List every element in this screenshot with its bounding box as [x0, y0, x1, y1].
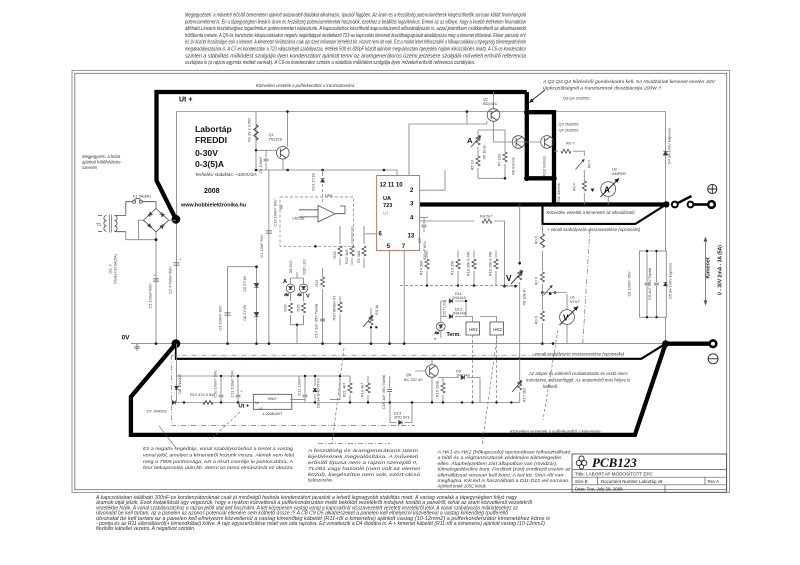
thick wire: Q3 collector drop — [525, 92, 529, 178]
wire Q1 emitter — [282, 159, 284, 170]
potentiometer R3 1k — [369, 315, 373, 325]
svg-text:erősítő típusa nem a rajzon sz: erősítő típusa nem a rajzon szereplő !!, — [308, 460, 418, 465]
svg-text:R20 W08H X1: R20 W08H X1 — [332, 296, 337, 321]
resistor R16 10k 0.4W — [495, 251, 497, 259]
svg-text:köthető: köthető — [543, 384, 558, 389]
junction dot - output node — [662, 340, 669, 347]
svg-text:A Q2 Q3 Q4 hűtéséről gondoskod: A Q2 Q3 Q4 hűtéséről gondoskodni kell, 5… — [542, 79, 717, 84]
svg-text:0-30V: 0-30V — [195, 148, 218, 158]
svg-text:szerelni: szerelni — [82, 165, 98, 170]
note opamp display text — [318, 443, 390, 445]
svg-text:R0 Y: R0 Y — [587, 159, 592, 168]
0V rail dots — [155, 342, 555, 345]
wire + node down to C8 box — [665, 205, 667, 344]
junction dot emitter bar right — [551, 176, 556, 181]
drawing frame inner border — [75, 73, 727, 489]
svg-text:Ut +: Ut + — [239, 404, 250, 410]
svg-text:2008: 2008 — [204, 188, 220, 195]
svg-text:+ vonali szabályozás visszavez: + vonali szabályozás visszavezetése (opc… — [547, 227, 641, 232]
svg-text:C11 100uF 50V: C11 100uF 50V — [230, 370, 235, 397]
junction dot AC node — [155, 238, 158, 241]
svg-text:D14 ZY1B: D14 ZY1B — [311, 173, 316, 191]
svg-text:méretezve, műszerfüggő. Az amp: méretezve, műszerfüggő. Az ampermérő más… — [526, 378, 631, 383]
aux rail dots — [183, 375, 498, 404]
zener D13 — [399, 421, 402, 425]
svg-text:VOLT: VOLT — [570, 299, 580, 304]
transistor Q3 — [512, 136, 525, 149]
svg-text:túlmelegedésükre bont. Fordíto: túlmelegedésükre bont. Fordított (zárt) … — [438, 467, 572, 472]
svg-text:C10 100nF 50V: C10 100nF 50V — [213, 370, 218, 398]
capacitor C19 — [280, 205, 282, 210]
+ output terminal ring 2 — [688, 202, 694, 208]
capacitor C10 — [219, 395, 224, 397]
wire pin5 pin7 down — [390, 251, 405, 344]
svg-text:R19 20k: R19 20k — [450, 261, 455, 276]
diode D4 — [663, 151, 667, 155]
svg-text:R21 4k7: R21 4k7 — [342, 383, 347, 398]
zener D5 — [228, 267, 257, 344]
bottom note paragraph — [95, 495, 551, 532]
svg-text:C19 100nF 60V: C19 100nF 60V — [273, 199, 278, 227]
svg-text:NI: NI — [255, 401, 259, 405]
svg-text:V: V — [306, 294, 310, 300]
svg-text:AMPER: AMPER — [612, 171, 626, 176]
dashed divider meters — [583, 229, 590, 343]
thick wire: branch to Q4 column — [527, 112, 554, 204]
svg-text:0 - 30V 2mA - 3A (5A): 0 - 30V 2mA - 3A (5A) — [718, 245, 724, 295]
svg-text:ZPD 5V1: ZPD 5V1 — [394, 415, 410, 420]
title block — [572, 454, 727, 492]
resistor R0X 3 — [540, 311, 544, 321]
svg-text:R1 39 2 0.5W: R1 39 2 0.5W — [247, 118, 252, 142]
fuse F1 — [126, 202, 156, 216]
transformer T1 — [98, 215, 126, 233]
wire pin6 stub — [364, 233, 377, 235]
potentiometer R0X — [544, 285, 553, 295]
svg-text:C4 10uF 50V: C4 10uF 50V — [259, 234, 264, 257]
svg-text:P8 10k lin: P8 10k lin — [522, 288, 527, 305]
resistor R24 — [322, 268, 324, 277]
svg-text:HK1: HK1 — [469, 327, 478, 332]
resistor R19 20k — [457, 251, 459, 259]
diode D5 output — [664, 282, 668, 285]
svg-text:potenciométerrel is. Én a tápe: potenciométerrel is. Én a tápegységben l… — [184, 18, 526, 25]
svg-text:0-3(5)A: 0-3(5)A — [195, 159, 224, 169]
svg-text:R4 2k7: R4 2k7 — [480, 214, 492, 219]
svg-text:P6 1k lin: P6 1k lin — [482, 145, 487, 160]
svg-text:megakadályozására is. A C7-es: megakadályozására is. A C7-es kondenzáto… — [185, 47, 526, 53]
svg-text:V: V — [506, 273, 512, 283]
wire pin2 stub — [420, 170, 446, 190]
svg-text:Q4 2N3055: Q4 2N3055 — [559, 128, 579, 133]
resistor R21 4k7 — [348, 383, 352, 393]
resistor R14 2k0 — [426, 251, 428, 259]
capacitor C2 — [174, 263, 180, 265]
svg-text:a hűtő és a végtranzisztorok v: a hűtő és a végtranzisztorok védelmére t… — [438, 455, 563, 460]
thick wire: emitter tie bar — [527, 176, 554, 180]
svg-text:D5 ZY1B: D5 ZY1B — [242, 276, 247, 292]
drawing frame outer border — [72, 71, 730, 493]
svg-text:Rev A: Rev A — [708, 479, 720, 484]
capacitor C12 — [303, 395, 308, 397]
test point triangle — [591, 189, 595, 192]
wire Q1 base branch — [256, 112, 277, 171]
diode D11 — [449, 299, 452, 303]
svg-text:D17 LED: D17 LED — [442, 300, 447, 316]
potentiometer R0Y — [576, 159, 585, 169]
svg-text:állítható.Lineáris feszültségh: állítható.Lineáris feszültséghez logarit… — [185, 26, 526, 32]
dashed feedback rail — [400, 285, 520, 287]
svg-text:közül), kiegészítve nem volt,: közül), kiegészítve nem volt, ezért olcs… — [308, 472, 421, 477]
svg-text:D8 1N4002: D8 1N4002 — [177, 374, 182, 394]
diode D10 schottky — [313, 388, 317, 391]
svg-text:R0 X: R0 X — [534, 276, 539, 285]
note HK text — [436, 450, 571, 489]
+ output binding post — [708, 201, 715, 208]
wire bridge bottom column — [155, 232, 157, 344]
svg-text:U5: U5 — [258, 407, 262, 411]
svg-text:meg a 7905 pontossága, ezt a r: meg a 7905 pontossága, ezt a részt cseré… — [143, 459, 293, 464]
+ output terminal ring 1 — [672, 202, 678, 208]
svg-text:A feszültség és áramgenerátoro: A feszültség és áramgenerátoros üzem — [307, 448, 419, 453]
svg-text:R22 1k5: R22 1k5 — [344, 250, 349, 265]
svg-text:fesz bekapcsolás után kb. 40mV: fesz bekapcsolás után kb. 40mV-os lassú … — [143, 465, 294, 470]
resistor R4 2k7 — [420, 220, 475, 222]
transistor Q1 — [277, 147, 290, 160]
svg-text:beleszerelve.: beleszerelve. — [308, 478, 333, 483]
svg-text:D7 1N4002: D7 1N4002 — [147, 409, 167, 414]
wires HK — [466, 317, 497, 323]
svg-text:D4 3A 100V kapcsos: D4 3A 100V kapcsos — [667, 128, 672, 164]
svg-text:R16 10k 0.4W: R16 10k 0.4W — [488, 251, 493, 276]
capacitor C11 — [236, 395, 241, 397]
svg-text:R11 0ohm1: R11 0ohm1 — [556, 183, 561, 203]
svg-text:2N2218: 2N2218 — [269, 137, 283, 142]
svg-text:R2 1k8: R2 1k8 — [356, 251, 361, 263]
wire Ut+ top rail — [177, 111, 666, 113]
junction dot 0V node — [172, 339, 181, 348]
svg-text:- vonali szabályozás visszavez: - vonali szabályozás visszavezetése (opc… — [532, 352, 625, 357]
svg-text:R5 1K: R5 1K — [470, 159, 475, 170]
- sense medium wire — [176, 344, 666, 359]
svg-text:Megjegyzés: a hidat: Megjegyzés: a hidat — [82, 154, 121, 159]
svg-text:R0 Y: R0 Y — [572, 182, 577, 191]
junction dot Q3 collector — [524, 110, 529, 115]
svg-text:Title: LABORTÁP MÓDOSÍTOTT EPC: Title: LABORTÁP MÓDOSÍTOTT EPC — [575, 470, 654, 476]
svg-text:C2 4700uF/63V: C2 4700uF/63V — [168, 266, 173, 294]
svg-text:Date: Tue, July 29, 2008: Date: Tue, July 29, 2008 — [575, 486, 623, 491]
svg-text:R12 470 0.5W: R12 470 0.5W — [190, 392, 215, 397]
svg-text:C8 100nF 50V: C8 100nF 50V — [627, 271, 632, 296]
svg-text:UA: UA — [383, 196, 391, 202]
- output binding post — [710, 340, 717, 347]
svg-text:ajánlott hűtőfelületre: ajánlott hűtőfelületre — [82, 160, 121, 165]
node dots small — [255, 110, 469, 171]
diode D9 — [461, 376, 464, 380]
svg-text:Size B: Size B — [575, 479, 588, 484]
svg-text:és 1V közötti feszültségre esi: és 1V közötti feszültségre esik a kimene… — [185, 40, 526, 46]
svg-text:C12 100nF: C12 100nF — [297, 376, 302, 396]
junction dot + output node — [663, 201, 669, 207]
svg-text:Közvetlen vezeték a pufferkond: Közvetlen vezeték a pufferkonditól a tra… — [256, 83, 355, 88]
svg-text:Közvetlen vezetnek a pufferkon: Közvetlen vezetnek a pufferkondtól a kim… — [510, 429, 601, 434]
svg-text:R7 100: R7 100 — [497, 153, 502, 166]
svg-text:TL081 vagy hasonló (nem volt a: TL081 vagy hasonló (nem volt az elemei — [308, 466, 422, 471]
svg-text:GND: GND — [267, 397, 276, 402]
svg-text:D5 3A 100V kapcsos: D5 3A 100V kapcsos — [668, 263, 673, 299]
svg-text:C14 1uF 35V Tantál: C14 1uF 35V Tantál — [314, 304, 319, 338]
resistor R0Y vertical — [582, 181, 586, 191]
wire 723 drive to Q2 — [409, 121, 487, 176]
svg-text:R3 1k: R3 1k — [374, 305, 379, 315]
svg-text:D16 LED: D16 LED — [302, 259, 307, 275]
wire Q2 collector — [493, 92, 495, 109]
capacitor C3 — [227, 267, 229, 344]
resistor R18 10k 0.4W — [473, 251, 475, 259]
dashed box indicator opamp — [280, 197, 354, 246]
svg-text:Ez a negatív segédtáp, vonal s: Ez a negatív segédtáp, vonal szabályozás… — [143, 446, 294, 451]
thermal switch HK2 — [490, 322, 504, 335]
wire bridge to + dot — [169, 219, 176, 221]
svg-text:Megjegyzések: a műveleti erősí: Megjegyzések: a műveleti erősítő bemenet… — [185, 13, 526, 19]
regulator U5 LM7806 — [253, 394, 291, 409]
svg-text:R24: R24 — [314, 279, 319, 287]
diode D12 — [449, 315, 452, 319]
svg-text:osztójára is (a rajzon egymás: osztójára is (a rajzon egymás mellett va… — [185, 60, 475, 66]
+ sense medium wire — [543, 204, 667, 224]
zener D14 — [322, 170, 324, 176]
svg-text:R14 2k0: R14 2k0 — [419, 260, 424, 275]
svg-text:BD241C: BD241C — [483, 101, 498, 106]
thick wire: pufferkond to transistors (Ut+ heavy run) — [157, 92, 527, 219]
negative sense rail dots — [224, 358, 521, 361]
thick wire: negative return path — [131, 344, 710, 435]
capacitor C6 — [264, 159, 269, 161]
thermal switch HK1 — [466, 322, 480, 335]
svg-text:FREDDI: FREDDI — [195, 135, 227, 145]
PCB123 logo — [576, 456, 587, 469]
capacitor C7 — [420, 217, 429, 219]
svg-text:Q3 2N3055: Q3 2N3055 — [559, 122, 579, 127]
svg-text:0V: 0V — [122, 335, 131, 342]
svg-text:1N4148: 1N4148 — [452, 295, 466, 300]
capacitor C9 — [654, 283, 659, 285]
svg-text:R26: R26 — [283, 304, 288, 311]
capacitor C8 — [645, 283, 650, 285]
resistor R2 1k8 — [363, 226, 365, 244]
svg-text:F1 5A(8A): F1 5A(8A) — [133, 194, 151, 199]
svg-text:R13 4k7: R13 4k7 — [360, 383, 365, 398]
svg-text:T1: T1 — [96, 222, 102, 227]
transistor Q2 — [487, 109, 500, 122]
transistor Q5 — [426, 365, 439, 378]
svg-text:Terhelési stabilitás: ~10mV/2A: Terhelési stabilitás: ~10mV/2A — [195, 172, 257, 177]
transistor Q4 — [541, 136, 554, 149]
svg-text:C1 100uF/63V: C1 100uF/63V — [148, 283, 153, 308]
junction dot dashed box — [314, 245, 317, 248]
svg-text:R18 10k 0.4W: R18 10k 0.4W — [466, 251, 471, 276]
resistor R12 470 0.5W — [203, 400, 213, 404]
svg-text:HK2: HK2 — [493, 327, 502, 332]
resistor R0Y horizontal — [554, 150, 558, 152]
capacitor C1 — [153, 279, 159, 281]
bridge rectifier D1-D4 — [143, 209, 168, 232]
svg-text:R0 X: R0 X — [534, 315, 539, 324]
svg-text:723: 723 — [383, 203, 392, 209]
svg-text:Q3-Q4 2N3055: Q3-Q4 2N3055 — [563, 96, 589, 101]
resistor R17 2k2 — [518, 380, 522, 390]
switch blade — [678, 196, 692, 203]
svg-text:Ajánlott érték 105C körüli.: Ajánlott érték 105C körüli. — [437, 484, 487, 489]
svg-text:C6 100nF: C6 100nF — [258, 156, 263, 174]
dashed leaders to notes — [332, 348, 344, 444]
svg-text:Kimenet: Kimenet — [706, 257, 712, 278]
wire Q1 row rail — [256, 170, 397, 176]
capacitor C16 tantal — [387, 390, 392, 392]
wire AC lower lead — [126, 220, 156, 240]
svg-text:Labortáp: Labortáp — [195, 124, 232, 134]
svg-text:Term.: Term. — [447, 332, 462, 338]
svg-text:R17 2k2: R17 2k2 — [522, 388, 527, 403]
svg-text:Ut +: Ut + — [179, 97, 192, 104]
svg-text:PCB123: PCB123 — [592, 455, 637, 470]
svg-text:U1: U1 — [383, 211, 389, 216]
svg-text:meghajtva. Két led is használh: meghajtva. Két led is használható a D11-… — [438, 478, 570, 483]
resistor R26 — [288, 303, 292, 313]
minus symbol — [708, 354, 718, 364]
resistor R23 — [339, 226, 341, 244]
svg-text:flexibilis kábellel vezetni. A: flexibilis kábellel vezetni. A negatívot… — [96, 526, 195, 532]
IC UA723 — [377, 176, 420, 251]
svg-text:Document Number Labortáp v9: Document Number Labortáp v9 — [601, 479, 663, 484]
svg-text:szintén a stabilitás működést: szintén a stabilitás működést szolgálja … — [185, 53, 526, 59]
diode D7 — [172, 401, 175, 405]
svg-text:R0 X: R0 X — [534, 235, 539, 244]
svg-text:vonal jelöl, amelyet a kimenet: vonal jelöl, amelyet a kimenetről hozunk… — [143, 452, 295, 457]
op-amp U6a — [299, 206, 345, 223]
svg-text:C3 100nF 60V: C3 100nF 60V — [218, 305, 223, 330]
note Megjegyzés hűtőfelület — [82, 154, 121, 170]
svg-text:930pF 60V: 930pF 60V — [422, 241, 427, 260]
wire 723 Vcc drop — [466, 112, 468, 125]
resistor R13 4k7 — [366, 383, 370, 393]
svg-text:K: K — [434, 336, 437, 341]
resistor R5 1k — [476, 156, 480, 166]
junction dot emitter bar left — [524, 176, 529, 181]
resistor R0X 2 — [540, 272, 544, 282]
svg-text:R10 0ohm1: R10 0ohm1 — [542, 156, 547, 176]
resistor R20 — [338, 302, 342, 312]
svg-text:R0 Y: R0 Y — [566, 141, 575, 146]
svg-text:12 11 10: 12 11 10 — [380, 183, 404, 189]
wire main + vertical rail — [176, 112, 178, 344]
capacitor C14 tantal — [322, 289, 324, 344]
svg-text:ellenállással sorosan kell köt: ellenállással sorosan kell kötni. A led … — [438, 472, 565, 477]
aux rail top — [177, 375, 351, 377]
svg-text:tápfeszültségnél a tranzisztor: tápfeszültségnél a tranzisztorok disszip… — [543, 86, 662, 91]
svg-text:R9 0ohm1: R9 0ohm1 — [511, 157, 516, 175]
resistor R1 — [254, 125, 258, 141]
diode D8 — [175, 386, 179, 389]
svg-text:D6 ZY1B: D6 ZY1B — [242, 305, 247, 321]
svg-text:C9 4u7 50V Tantál: C9 4u7 50V Tantál — [647, 268, 652, 300]
aux dashed section box — [172, 355, 561, 425]
wires LED cluster — [291, 272, 304, 301]
svg-text:Közvetlen vezeték a kimenetre: Közvetlen vezeték a kimenetre az ellenál… — [547, 210, 636, 215]
svg-text:D8 1A SHOTTKY: D8 1A SHOTTKY — [316, 378, 321, 408]
wire 0V bottom rail — [131, 343, 666, 345]
svg-text:LM7806CT: LM7806CT — [262, 412, 282, 417]
svg-text:A: A — [283, 279, 287, 285]
svg-text:BC 337-40: BC 337-40 — [404, 377, 423, 382]
resistor R0X 1 — [541, 224, 543, 233]
svg-text:R25: R25 — [296, 304, 301, 311]
svg-text:13: 13 — [408, 234, 415, 240]
plus symbol — [708, 184, 717, 193]
resistor R15 220k — [441, 383, 445, 393]
svg-text:1N4148: 1N4148 — [452, 311, 466, 316]
svg-text:C16 1uF 35V Tantál: C16 1uF 35V Tantál — [381, 375, 386, 409]
thick wire: output bus pin3 to + terminal — [420, 202, 667, 206]
svg-text:Az amper és voltmérő csatlakoz: Az amper és voltmérő csatlakoztatás és o… — [528, 371, 628, 376]
LED D17 — [435, 322, 445, 334]
junction dot bridge + — [172, 215, 181, 224]
wire Q1 collector — [287, 112, 289, 147]
zener D6 — [254, 313, 258, 317]
LED D16 with V — [298, 284, 308, 296]
junction dot zener top — [255, 265, 258, 268]
svg-text:1N4148: 1N4148 — [456, 373, 470, 378]
top note paragraph — [184, 13, 526, 67]
svg-text:A: A — [467, 136, 473, 145]
svg-text:hűtőborda mérete. A Q5-ös tran: hűtőborda mérete. A Q5-ös tranzisztor ki… — [185, 33, 527, 39]
svg-text:www.hobbielektronika.hu: www.hobbielektronika.hu — [180, 203, 246, 209]
svg-text:R23: R23 — [332, 251, 337, 258]
svg-text:D8 6V0: D8 6V0 — [288, 260, 293, 274]
aux negative rail — [177, 344, 521, 403]
Kimenet arrow — [704, 238, 707, 305]
annotation arrow — [531, 90, 545, 101]
ground symbol — [134, 344, 140, 351]
capacitor C4 — [268, 170, 270, 344]
note negative aux text — [143, 446, 295, 470]
resistor R22 1k5 — [351, 226, 353, 244]
svg-text:ellen. Alaphelyzetben zárt áll: ellen. Alaphelyzetben zárt állapotban va… — [438, 461, 558, 466]
project title text — [180, 124, 257, 209]
svg-text:kijelzésének megvalósítása. A: kijelzésének megvalósítása. A műveleti — [308, 454, 420, 459]
+ output lead — [693, 203, 707, 206]
resistor R7 100 — [503, 152, 507, 162]
resistor R25 — [301, 303, 305, 313]
wire Q2 emitter to bases — [494, 122, 541, 143]
svg-text:R15 220k: R15 220k — [435, 381, 440, 398]
wire D4 output column — [665, 112, 667, 205]
svg-text:A HK1 és HK2 (hőkapcsoló) opci: A HK1 és HK2 (hőkapcsoló) opcionálisan f… — [436, 450, 571, 455]
output cap box — [639, 251, 666, 317]
svg-text:Dióda híd 3A(5A): Dióda híd 3A(5A) — [113, 253, 118, 284]
svg-text:LM158: LM158 — [293, 216, 305, 221]
